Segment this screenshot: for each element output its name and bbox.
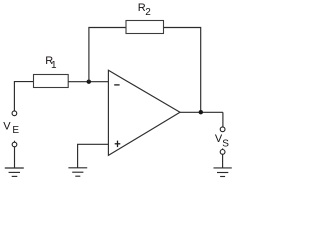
terminal VS top [220,127,225,132]
op-amp U1 [108,70,180,155]
wire: VS bottom terminal to ground [222,154,224,168]
ground (output) [214,168,232,177]
label R1 [45,55,57,71]
wire: VE bottom terminal to ground [14,147,16,168]
op-amp non-inverting input marker (plus) [115,141,121,148]
ground (input source) [5,168,24,176]
resistor R2 [126,21,164,34]
junction: inverting input node [87,80,91,84]
label VE [3,121,19,137]
terminal VS bottom [220,148,225,154]
ground (non-inverting input) [68,168,87,176]
junction: output node [199,110,203,114]
wire: op-amp output [180,111,223,113]
wire: R1 right lead to inverting input [68,81,108,83]
op-amp inverting input marker (minus) [114,84,119,86]
svg-text:S: S [222,139,229,150]
svg-text:V: V [3,121,11,133]
svg-text:E: E [12,125,19,136]
wire: R1 left lead to VE top terminal [14,82,33,111]
svg-text:2: 2 [145,7,151,18]
svg-text:1: 1 [51,60,57,71]
label VS [215,133,229,150]
resistor R1 [34,75,69,88]
terminal VE top [12,111,17,116]
wire: non-inverting input to ground [78,144,109,167]
wire: output down to VS top terminal [222,112,224,126]
terminal VE bottom [12,141,17,147]
wire: R2 right lead down to output node [164,28,201,113]
wire: feedback from inverting node up to R2 left [89,28,126,82]
label R2 [138,2,152,18]
